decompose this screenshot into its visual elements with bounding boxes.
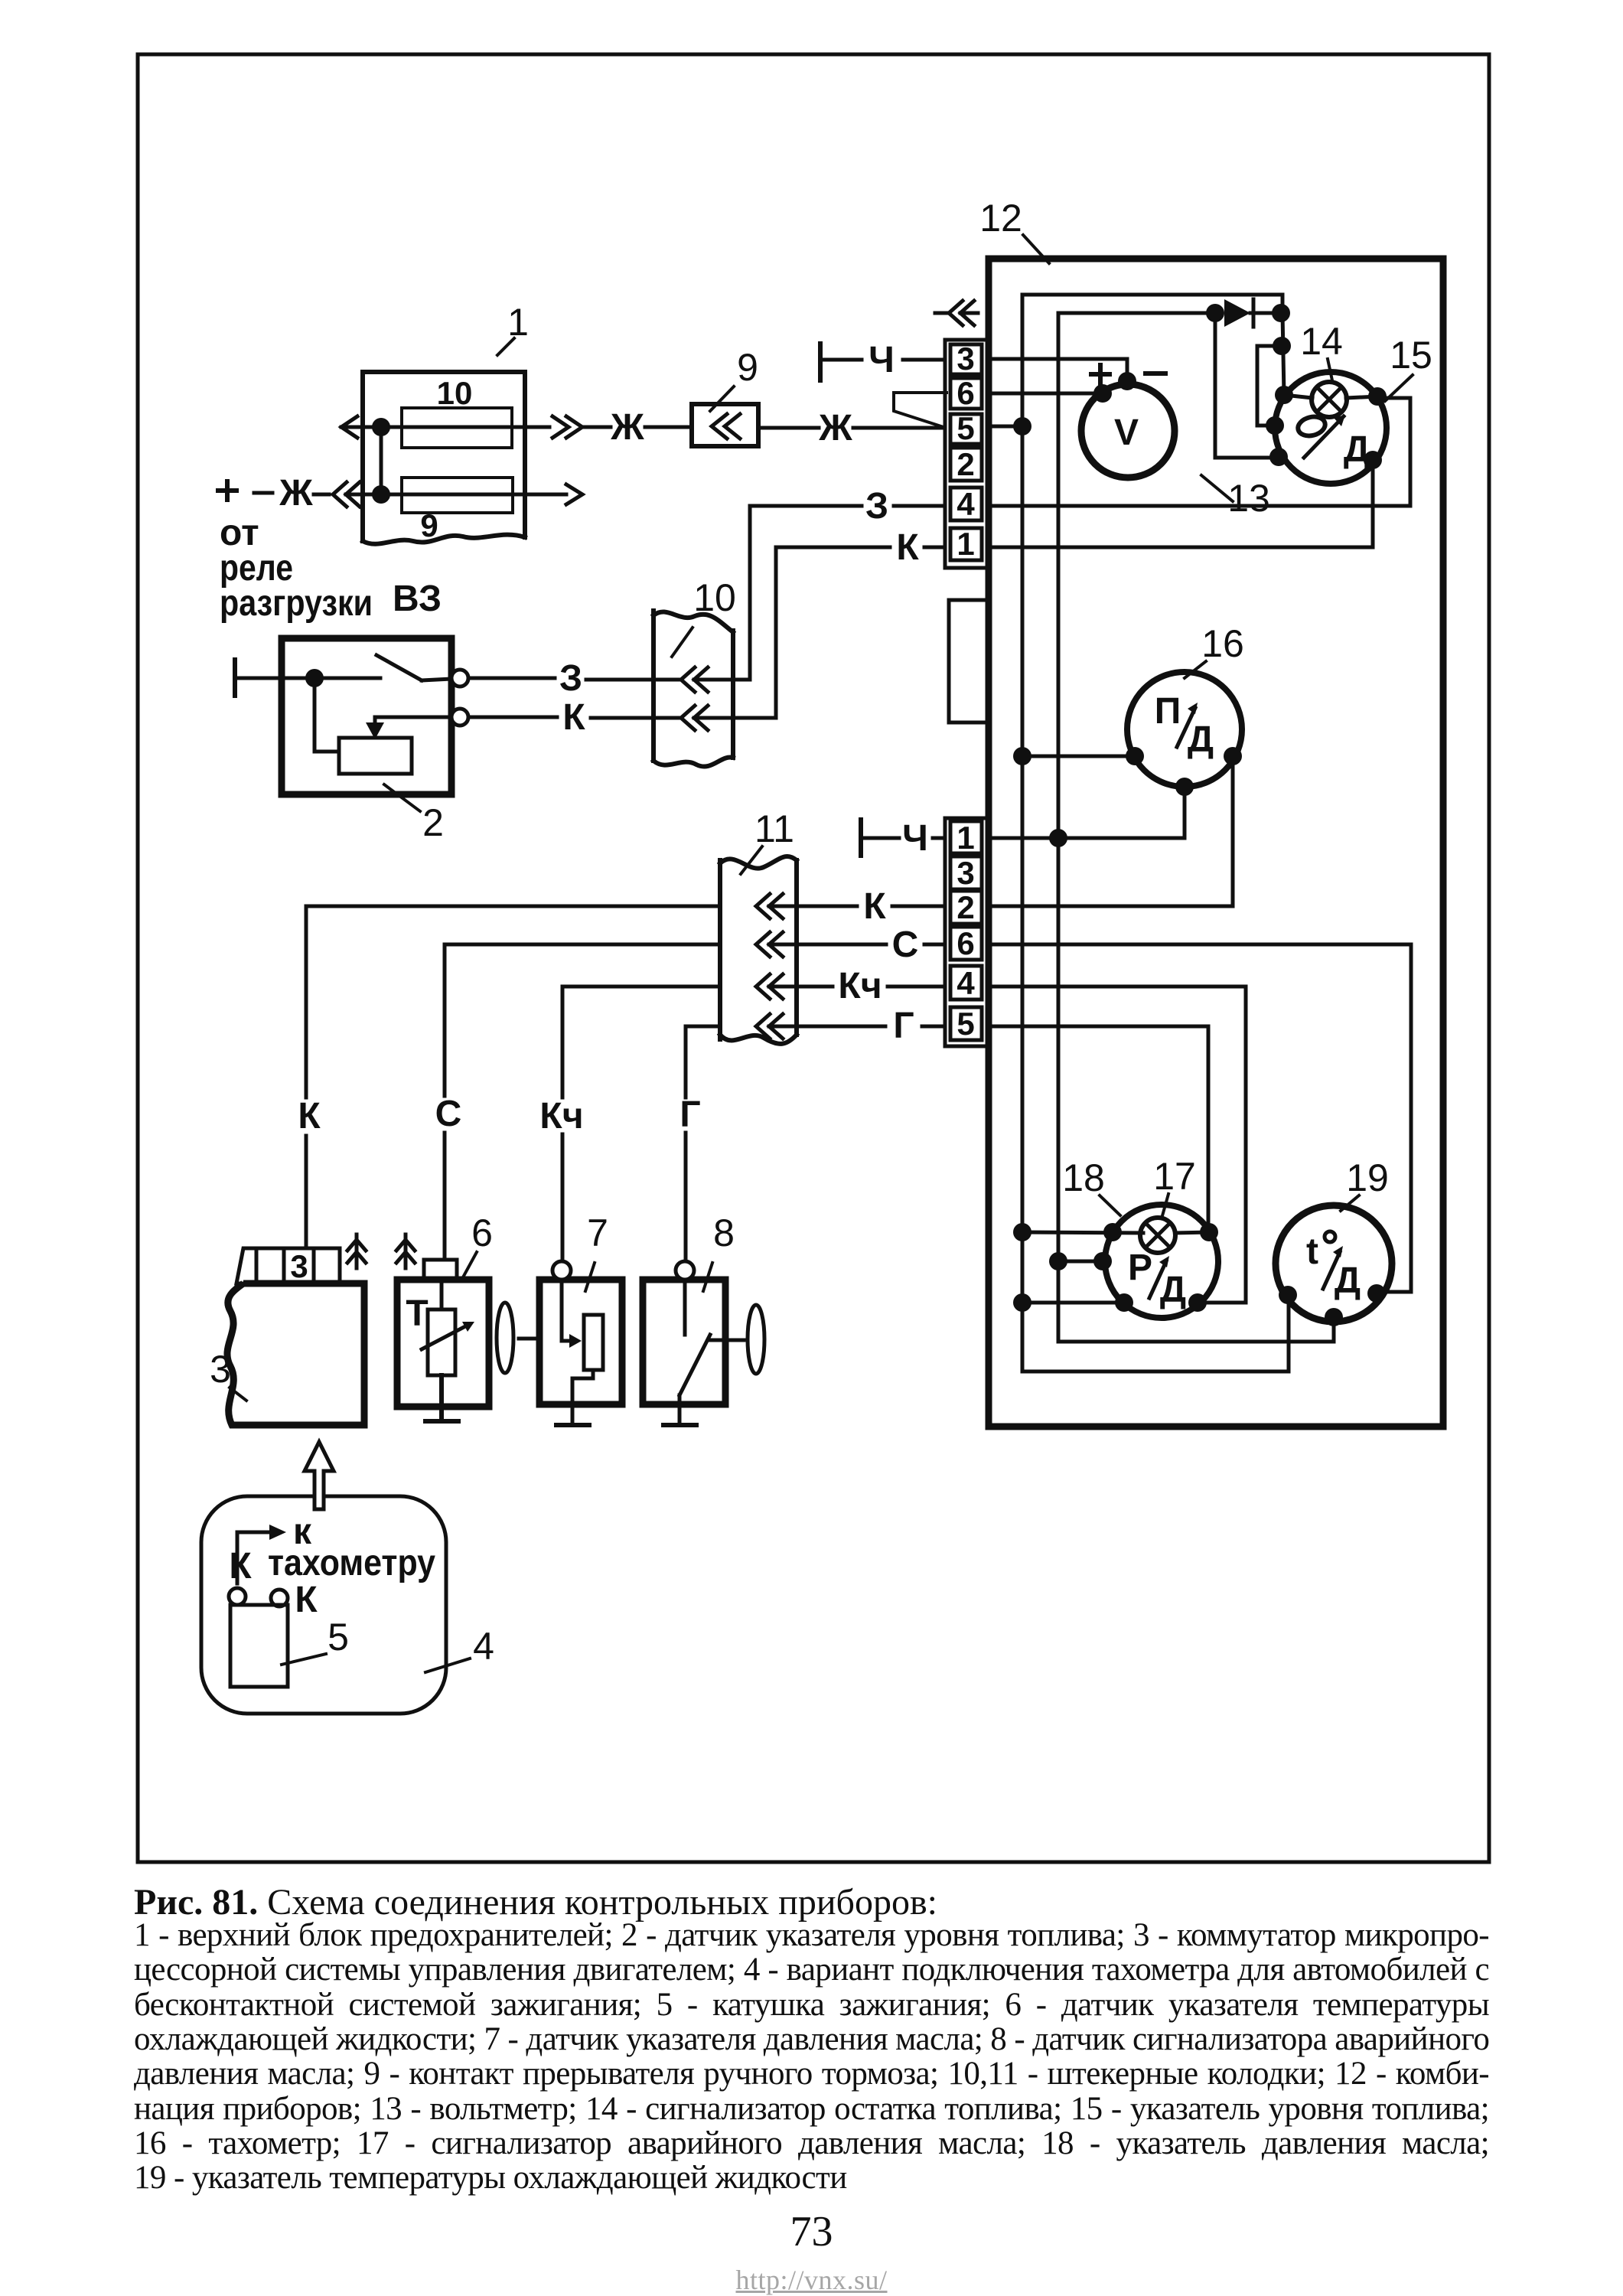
- wire: lower terminal to wiper arrow: [375, 717, 451, 727]
- svg-text:3: 3: [957, 855, 974, 891]
- leader line for label 5: [282, 1654, 326, 1665]
- svg-text:3: 3: [290, 1248, 308, 1284]
- svg-text:13: 13: [1227, 477, 1270, 520]
- lens coupling after sensor 6: [497, 1303, 513, 1373]
- wire: lamp 17 right lead: [1175, 1232, 1208, 1233]
- node: gauge15 upper-left terminal: [1275, 386, 1293, 404]
- wire: Г row inside cluster to oil lamp: [989, 1026, 1208, 1232]
- ignition variant 4 rounded box: [201, 1496, 446, 1714]
- ignition coil 5 body: [230, 1605, 288, 1687]
- wire: gauge15 lower-right to К row: [1371, 460, 1375, 547]
- leader line for label 3: [230, 1388, 246, 1401]
- svg-text:Ж: Ж: [610, 407, 644, 448]
- pin box 5 (lower): [950, 1007, 982, 1040]
- hollow arrow from box 4 to commutator 3: [305, 1442, 334, 1509]
- connector 10 arrow on З row: [681, 667, 708, 692]
- fuse block 1 (верхний блок предохранителей) body with torn bottom edge: [363, 372, 525, 541]
- pin box 4: [950, 488, 982, 520]
- svg-text:11: 11: [754, 807, 794, 850]
- svg-text:10: 10: [693, 576, 736, 619]
- node: voltmeter minus terminal: [1118, 372, 1136, 390]
- wire: supply bus vertical x=1336 down the cluster: [1022, 295, 1289, 1371]
- node: junction dot fuse row2: [372, 485, 390, 504]
- sensor 7 terminal: [552, 1261, 571, 1280]
- leader line for label 1: [497, 338, 514, 355]
- svg-text:10: 10: [437, 375, 473, 411]
- wiper arrow to resistor 7: [562, 1339, 572, 1343]
- wire: Кч row inside cluster to oil gauge: [989, 987, 1246, 1303]
- leader line for label 2: [384, 784, 420, 811]
- ground under sensor 7: [556, 1423, 589, 1427]
- node: gauge19 left terminal: [1279, 1286, 1297, 1304]
- wire: Ч row inside cluster (pin 1 lower): [989, 837, 1185, 840]
- node: supply bus junction lower row: [1013, 1293, 1031, 1312]
- wire С row to lower pin 6: [769, 943, 886, 947]
- svg-text:3: 3: [210, 1348, 231, 1391]
- leader line for label 13: [1201, 475, 1233, 501]
- plug connector 11 (штекерная колодка) body: [718, 860, 722, 1039]
- node: tach bottom terminal: [1175, 778, 1194, 796]
- wire К from connector 10 riser to pin 1: [776, 546, 890, 550]
- svg-text:тахометру: тахометру: [268, 1543, 435, 1583]
- pin box 2: [950, 448, 982, 481]
- wire К from connector 11 to commutator 3: [306, 906, 720, 1097]
- node: junction dot fuse row1: [372, 418, 390, 436]
- svg-text:4: 4: [957, 486, 975, 522]
- wire: vertical link between fuse rows: [380, 427, 383, 494]
- leader line for label 18: [1100, 1195, 1120, 1215]
- svg-text:Кч: Кч: [838, 966, 882, 1006]
- connector arrow inside contact 9: [712, 414, 740, 439]
- svg-text:1: 1: [507, 301, 529, 344]
- wire: coil loop bracket to gauge 15 left terminal: [1257, 346, 1282, 426]
- page number 73: [0, 2207, 1623, 2256]
- wire Г from connector 11 to oil switch 8: [686, 1026, 720, 1097]
- pin box 2 (lower): [950, 891, 982, 924]
- pin box 3 (lower): [950, 856, 982, 889]
- svg-text:П: П: [1155, 691, 1181, 732]
- upper connector housing on cluster: [945, 340, 989, 568]
- wire: lamp left lead: [1284, 395, 1312, 398]
- svg-text:19: 19: [1346, 1156, 1389, 1199]
- node: diode cathode junction: [1272, 304, 1290, 322]
- svg-text:Ж: Ж: [818, 408, 852, 448]
- wire С from connector 11 to temp sensor 6: [445, 944, 720, 1096]
- svg-text:К: К: [896, 527, 919, 568]
- svg-text:К: К: [863, 886, 886, 927]
- svg-text:Г: Г: [893, 1006, 914, 1046]
- node: tach left terminal: [1126, 747, 1144, 765]
- svg-text:17: 17: [1153, 1155, 1196, 1198]
- svg-text:ВЗ: ВЗ: [393, 579, 442, 619]
- wire: anode bus to gauge 18 left terminal: [1058, 1260, 1105, 1264]
- wire: С row inside cluster to temp gauge: [989, 944, 1411, 1292]
- commutator 3 pin strip: [236, 1248, 340, 1283]
- node: gauge18 lower-right terminal: [1188, 1293, 1207, 1312]
- wire from contact 9 to cluster, colour Ж: [758, 426, 819, 430]
- wire: К row inside cluster (pin 2 lower): [989, 905, 1233, 908]
- wire: junction to resistor: [314, 678, 339, 752]
- svg-text:2: 2: [422, 801, 444, 844]
- svg-text:6: 6: [957, 925, 974, 961]
- leader line for label 9: [710, 386, 734, 411]
- wire: + supply from relay, label +: [218, 481, 236, 500]
- svg-text:З: З: [865, 486, 888, 527]
- wire: fuse row1 exit, double chevron right: [525, 426, 549, 429]
- wedge pointer at pins 5/6: [894, 393, 947, 427]
- svg-text:Д: Д: [1188, 719, 1214, 760]
- node: supply bus junction at lamp row: [1013, 1223, 1031, 1241]
- connector 10 arrow on К row: [681, 706, 708, 730]
- leader line for label 15: [1385, 375, 1413, 401]
- node: anode bus junction at gauge row: [1049, 1252, 1067, 1270]
- fuel gauge 15 body: [1275, 372, 1387, 484]
- wire: fuse row 2 through fuse to right arrow: [346, 493, 566, 497]
- oil pressure gauge 18 body: [1105, 1205, 1218, 1318]
- svg-text:6: 6: [471, 1212, 493, 1254]
- svg-text:К: К: [298, 1096, 321, 1137]
- svg-text:К: К: [295, 1580, 318, 1620]
- resistor inside sender 2: [339, 738, 412, 774]
- wire Кч from connector 11 to oil sensor 7: [562, 987, 720, 1097]
- oil pressure switch 8 body: [643, 1280, 725, 1404]
- diode VD (anode left, cathode right): [1224, 299, 1250, 327]
- double up-arrow symbol near commutator: [347, 1234, 366, 1268]
- fuse F10 body: [402, 408, 512, 448]
- svg-text:t: t: [1306, 1231, 1318, 1272]
- pin box 5: [950, 414, 982, 444]
- wire Г row to lower pin 5: [769, 1025, 885, 1029]
- svg-text:4: 4: [473, 1625, 494, 1668]
- node: junction inside sender 2: [305, 669, 324, 687]
- capacitor-style terminal + wire Ч to pin 3: [818, 344, 823, 380]
- svg-text:Д: Д: [1344, 429, 1370, 470]
- svg-text:2: 2: [957, 446, 974, 482]
- polarity sign minus: [1146, 371, 1165, 376]
- svg-text:3: 3: [957, 341, 974, 377]
- ground under switch 8: [663, 1423, 696, 1427]
- double up-arrow symbol near sensor 6: [396, 1234, 415, 1268]
- switch arm inside sender 2: [376, 655, 422, 680]
- connector 11 arrow on Г row: [756, 1014, 783, 1039]
- node: diode anode junction: [1206, 304, 1224, 322]
- leader line for label 17: [1162, 1194, 1168, 1218]
- node: supply bus junction at tach row: [1013, 747, 1031, 765]
- svg-text:V: V: [1114, 413, 1139, 453]
- oil pressure sensor 7 body: [539, 1280, 622, 1404]
- wire К from sender 2 to connector 10: [468, 716, 557, 719]
- wire: fuse row 1 with left arrow: [341, 426, 525, 429]
- instrument cluster 12 housing: [989, 259, 1443, 1427]
- wire: resistor 7 to ground: [572, 1370, 593, 1425]
- ignition coil 5 terminals: [229, 1588, 246, 1605]
- handbrake contact 9 (контакт прерывателя ручного тормоза) box: [692, 404, 758, 446]
- wire into sender 2: [237, 677, 380, 680]
- leader line for label 10: [672, 628, 693, 657]
- terminal bar left of sender 2: [233, 660, 237, 696]
- wire: tach bottom to Ч row: [1183, 787, 1187, 838]
- svg-text:З: З: [559, 658, 582, 699]
- wire: К row inside cluster (pin 1): [989, 546, 1373, 550]
- fuel sender 2 (датчик уровня топлива) box: [282, 638, 451, 794]
- wire: diode anode bus vertical x=1383: [1058, 313, 1334, 1342]
- node: anode bus junction at Ч row: [1049, 829, 1067, 847]
- pin box 1: [950, 528, 982, 560]
- leader line for label 6: [463, 1252, 477, 1277]
- voltmeter 13 body: [1081, 384, 1175, 478]
- leader line for label 19: [1341, 1195, 1359, 1211]
- node: gauge18 left terminal: [1093, 1252, 1112, 1270]
- switch arm inside 8: [680, 1335, 710, 1395]
- svg-text:К: К: [562, 697, 585, 738]
- svg-text:5: 5: [328, 1616, 349, 1658]
- wire: З riser from connector 10 to pin 4 row: [694, 506, 750, 680]
- wire: З row inside cluster (pin 4): [989, 504, 1410, 508]
- pin box 4 (lower): [950, 966, 982, 1000]
- capacitor-style terminal + wire Ч to lower pin 1: [859, 820, 863, 856]
- svg-text:2: 2: [957, 889, 974, 925]
- wire К row to lower pin 2: [769, 905, 857, 908]
- wire inside sensor 7: [560, 1280, 564, 1341]
- figure caption title: [134, 1881, 937, 1923]
- wire: cathode drop to lamp feed: [1282, 313, 1284, 395]
- oil pressure lamp 17 (bulb): [1140, 1218, 1175, 1253]
- pin box 6 (lower): [950, 927, 982, 960]
- node: gauge19 bottom terminal: [1325, 1308, 1343, 1326]
- coolant temp gauge 19 body: [1276, 1205, 1392, 1322]
- polarity sign +: [1091, 365, 1110, 383]
- svg-text:9: 9: [420, 507, 438, 543]
- wire: tach right to К row: [1231, 756, 1235, 906]
- page border frame: [138, 54, 1489, 1862]
- connector 11 arrow on Кч row: [756, 974, 783, 999]
- wire: supply bus to gauge 18 lower-left: [1022, 1301, 1124, 1305]
- node: gauge19 right terminal: [1367, 1284, 1386, 1303]
- wire: lamp right lead: [1346, 396, 1377, 398]
- wire: dash after Ж: [314, 493, 329, 497]
- wire from Ж to handbrake contact 9: [645, 426, 692, 429]
- svg-text:16: 16: [1201, 622, 1244, 665]
- watermark: [0, 2264, 1623, 2296]
- wire: supply bus to lamp 17 left: [1022, 1232, 1143, 1233]
- svg-text:Г: Г: [680, 1094, 700, 1135]
- connector arrow into fuse block (double chevron): [333, 482, 360, 507]
- resistor inside sensor 6: [428, 1309, 455, 1375]
- svg-text:9: 9: [737, 346, 758, 389]
- wire Кч row to lower pin 4: [769, 985, 833, 989]
- variable arrow across resistor 6: [422, 1325, 468, 1349]
- svg-text:15: 15: [1390, 334, 1432, 377]
- resistor inside sensor 7: [584, 1315, 603, 1370]
- node: lamp17 left terminal: [1103, 1223, 1122, 1241]
- leader line for label 12: [1023, 235, 1049, 263]
- blank connector housing below upper pins: [949, 600, 989, 722]
- pin box 1 (lower): [950, 821, 982, 853]
- wire: dash before Ж: [254, 491, 272, 495]
- node: gauge15 lower-right terminal: [1364, 451, 1382, 469]
- svg-text:8: 8: [713, 1212, 735, 1254]
- sensor 6 terminal cap: [424, 1260, 457, 1280]
- svg-text:С: С: [892, 925, 919, 965]
- svg-text:Ч: Ч: [902, 818, 928, 859]
- fuel symbol O and arrow Д inside gauge 15: [1296, 414, 1328, 439]
- wire: anode branch down to gauge 15 lower-left terminal: [1215, 313, 1279, 458]
- tachometer 16 body: [1127, 672, 1242, 787]
- pin box 6: [950, 378, 982, 409]
- leader line for label 8: [703, 1263, 712, 1291]
- wire: pin 5 stub to supply bus: [989, 425, 1022, 429]
- svg-text:Кч: Кч: [539, 1096, 583, 1137]
- svg-text:К: К: [229, 1546, 252, 1587]
- wire З from connector 10 riser to pin 4: [750, 504, 862, 508]
- svg-text:Т: Т: [406, 1293, 428, 1334]
- connector 11 arrow on К row: [756, 894, 783, 918]
- temp sensor 6 (датчик температуры) body: [397, 1280, 489, 1407]
- svg-text:1: 1: [957, 526, 974, 562]
- svg-text:Д: Д: [1160, 1270, 1186, 1310]
- svg-text:С: С: [435, 1094, 462, 1134]
- leader line for label 16: [1185, 661, 1206, 678]
- svg-text:разгрузки: разгрузки: [220, 583, 373, 624]
- node: gauge15 lower-left terminal: [1269, 448, 1288, 466]
- wire: gauge15 upper-right to З row: [1377, 398, 1410, 506]
- svg-text:Ч: Ч: [869, 340, 895, 380]
- dash and lens coupling after switch 8: [730, 1339, 744, 1342]
- svg-text:4: 4: [957, 965, 975, 1001]
- fuse F9 body: [402, 478, 513, 513]
- ground under sensor 6: [425, 1375, 458, 1421]
- leader line for label 7: [585, 1263, 595, 1291]
- node: voltmeter plus terminal: [1093, 384, 1112, 403]
- commutator 3 (коммутатор) body with torn left edge: [227, 1283, 364, 1425]
- svg-text:5: 5: [957, 410, 974, 446]
- wire: supply loop top inside cluster: [1022, 295, 1282, 313]
- connector 11 arrow on С row: [756, 932, 783, 957]
- node: gauge15 upper-right terminal: [1368, 387, 1387, 406]
- node: lamp17 right terminal: [1200, 1223, 1218, 1241]
- node: gauge15 coil tap junction: [1273, 337, 1291, 355]
- switch 8 terminal: [676, 1261, 694, 1280]
- svg-text:7: 7: [587, 1212, 608, 1254]
- svg-text:Д: Д: [1335, 1261, 1361, 1301]
- wire inside switch 8: [683, 1280, 687, 1335]
- arrow к tachometer inside box 4: [237, 1532, 274, 1583]
- node: pin5 supply junction: [1013, 417, 1031, 435]
- lower connector housing on cluster: [945, 818, 989, 1046]
- wire: pin 6 row to voltmeter plus: [989, 392, 1103, 396]
- leader line for label 11: [741, 846, 762, 874]
- wire З from sender 2 to connector 10: [468, 677, 555, 680]
- node: gauge18 lower-left terminal: [1115, 1293, 1133, 1312]
- fuel reserve lamp 14 (bulb): [1312, 382, 1347, 417]
- svg-text:12: 12: [979, 197, 1022, 240]
- pin box 3: [950, 344, 982, 374]
- sender 2 upper terminal: [451, 670, 468, 687]
- plug connector 10 (штекерная колодка) body: [651, 611, 656, 761]
- svg-text:14: 14: [1300, 320, 1343, 363]
- svg-text:5: 5: [957, 1006, 974, 1042]
- svg-text:18: 18: [1062, 1156, 1105, 1199]
- leader line for label 4: [425, 1658, 470, 1672]
- wire: supply bus to tach left: [1022, 755, 1135, 758]
- sender 2 lower terminal: [451, 709, 468, 726]
- wire: К riser from connector 10 to pin 1 row: [694, 547, 776, 718]
- wire: pin 3 row to voltmeter minus: [989, 359, 1127, 381]
- node: gauge15 left terminal: [1266, 416, 1284, 435]
- svg-text:6: 6: [957, 375, 974, 411]
- svg-text:Р: Р: [1128, 1247, 1152, 1288]
- node: tach right terminal: [1224, 747, 1242, 765]
- svg-text:1: 1: [957, 820, 974, 856]
- svg-text:Ж: Ж: [279, 473, 313, 514]
- figure caption legend: [134, 1916, 1489, 1954]
- leader line for label 14: [1328, 359, 1332, 380]
- connector arrow above pin 3 on cluster edge: [935, 311, 949, 315]
